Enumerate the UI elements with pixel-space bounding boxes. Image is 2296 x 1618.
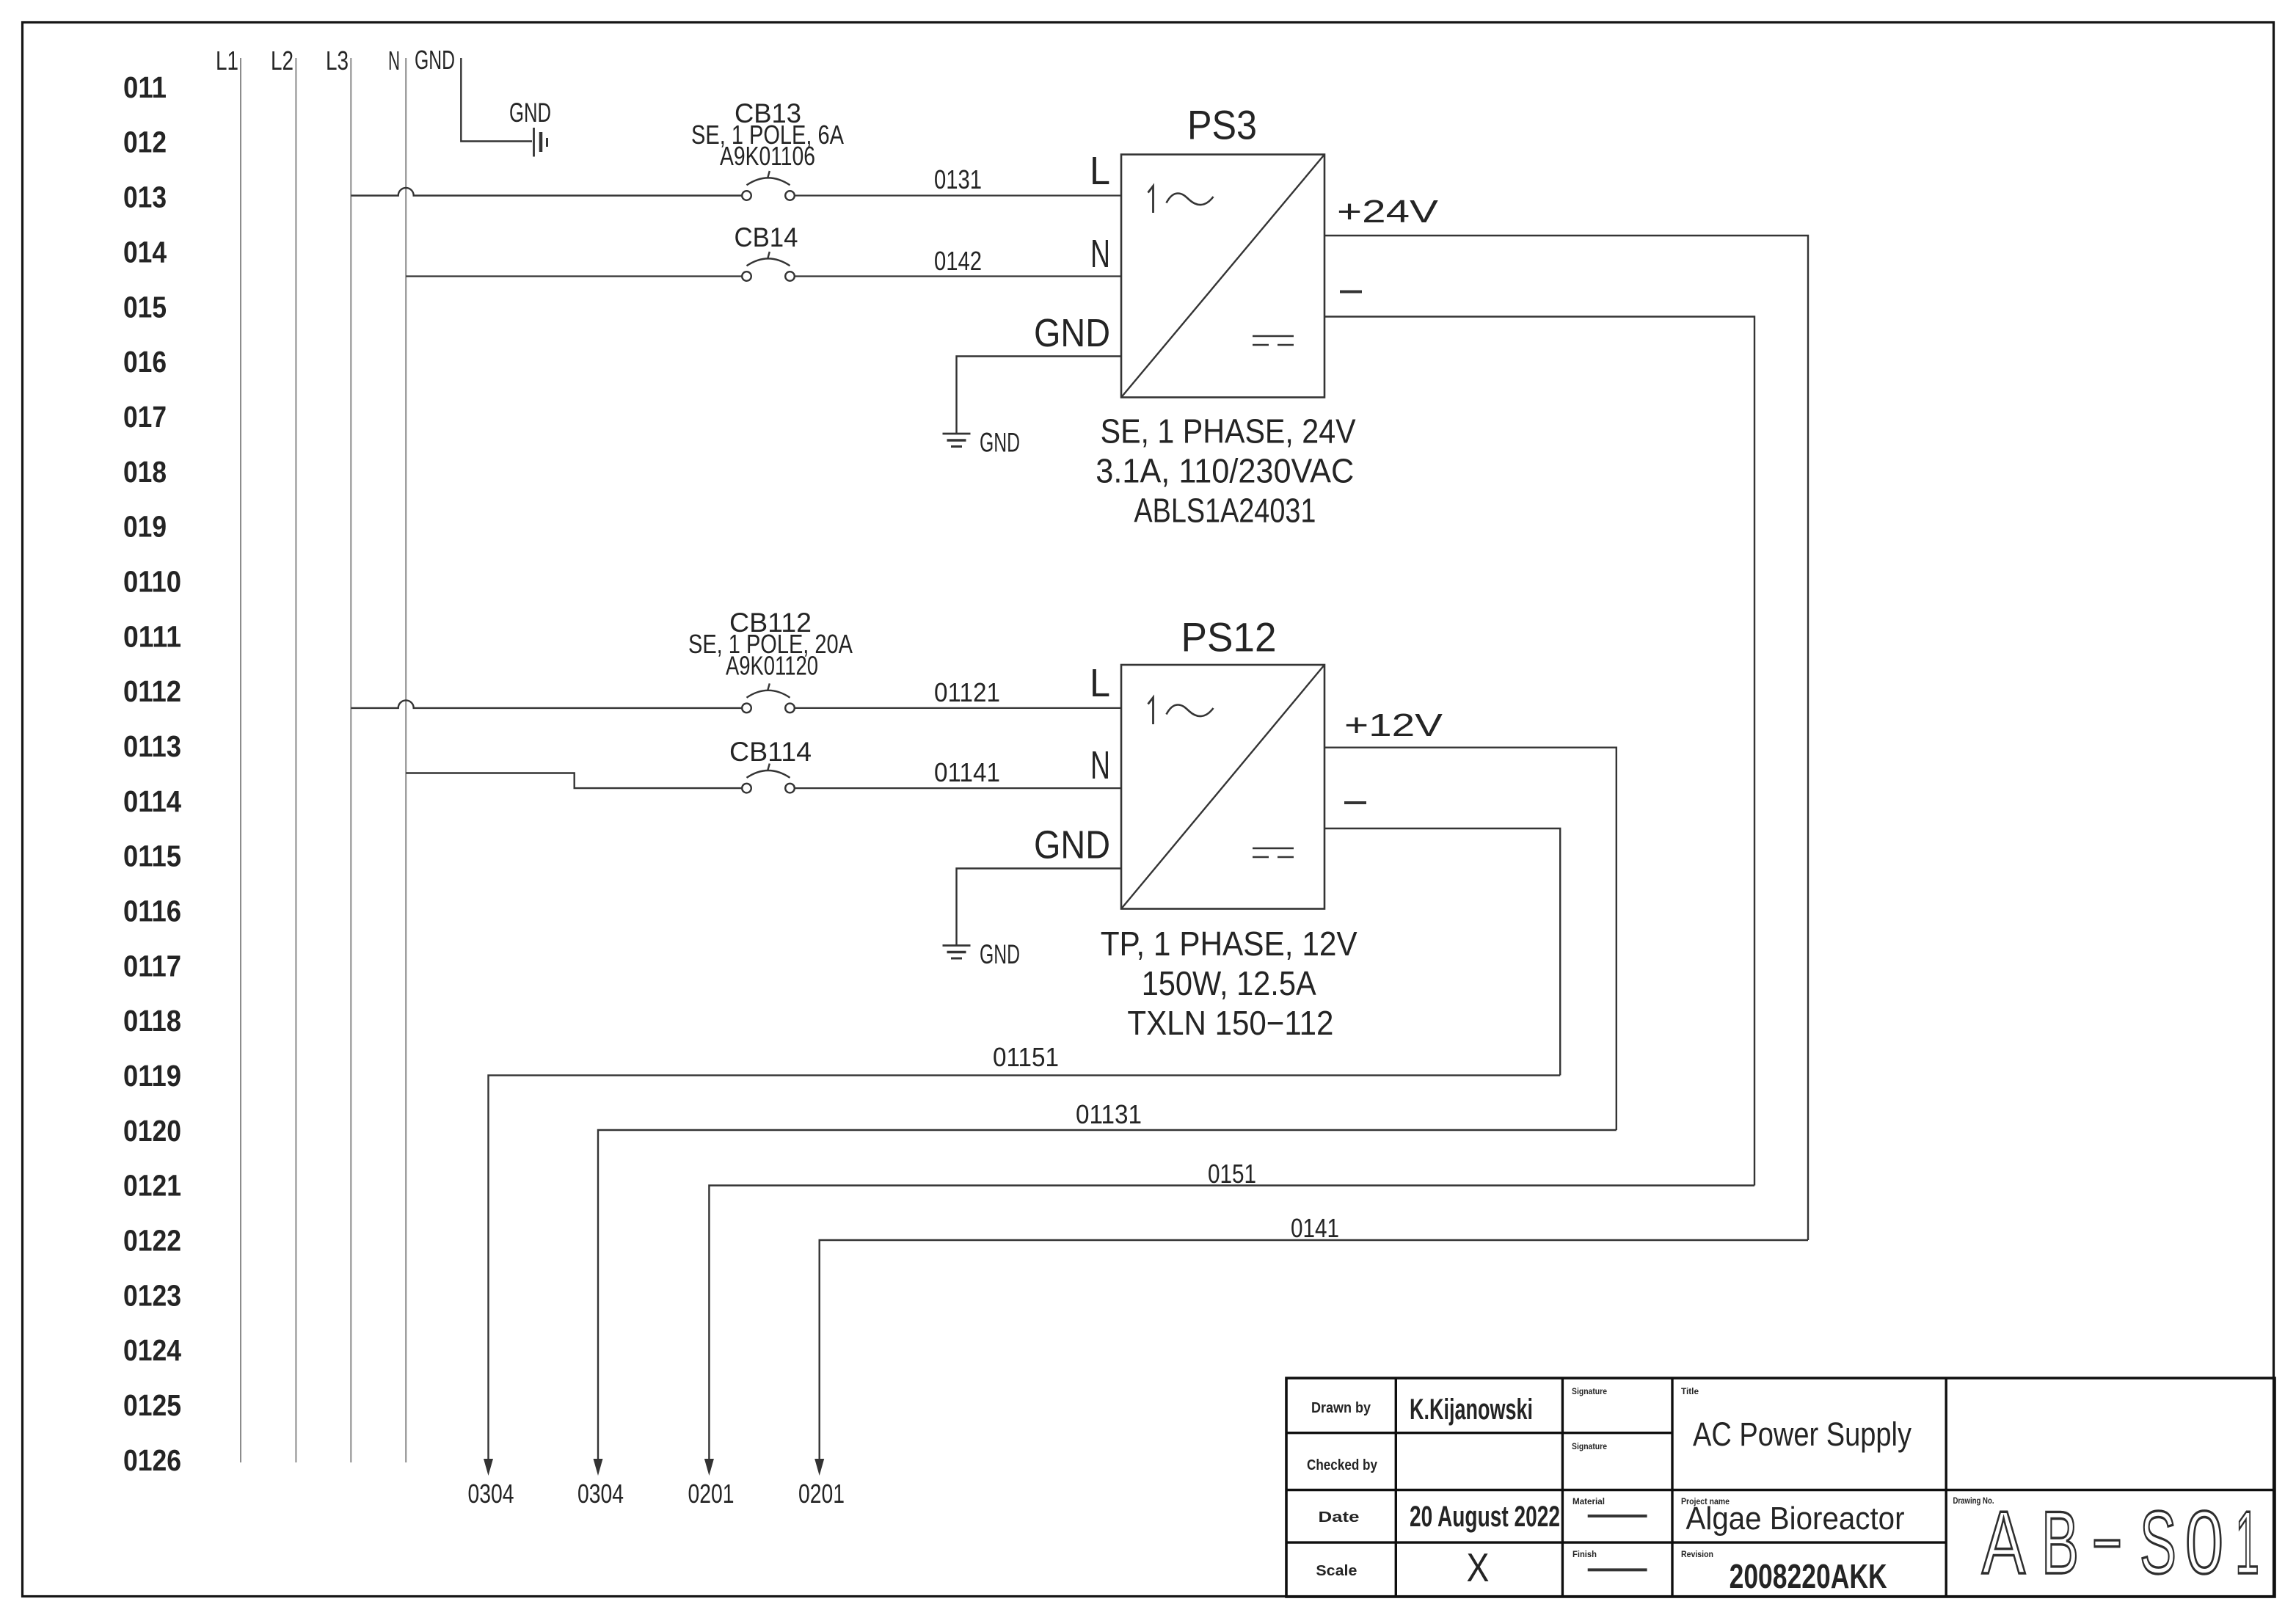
PS12 pin label GND [1034, 823, 1110, 867]
svg-text:Finish: Finish [1572, 1550, 1597, 1559]
finish dash [1588, 1568, 1647, 1571]
wire 01151 horizontal run and drop to sheet arrow [489, 1075, 1561, 1459]
svg-text:20 August 2022: 20 August 2022 [1410, 1501, 1560, 1533]
PS12 reference label [1181, 614, 1277, 660]
svg-text:2008220AKK: 2008220AKK [1730, 1557, 1887, 1595]
CB114 reference label [729, 737, 812, 767]
svg-text:018: 018 [123, 455, 167, 489]
circuit breaker CB114 [742, 764, 795, 793]
+12V label [1344, 707, 1443, 743]
svg-text:015: 015 [123, 290, 167, 324]
svg-text:N: N [388, 45, 400, 76]
svg-text:L1: L1 [216, 45, 238, 76]
off-sheet arrow 0304 (second) [594, 1459, 603, 1476]
svg-text:+24V: +24V [1337, 194, 1439, 230]
L3 bus line [350, 58, 351, 1462]
svg-text:016: 016 [123, 345, 167, 379]
wire 0142 segment: N tap to CB14 [406, 275, 742, 277]
svg-text:0131: 0131 [934, 164, 982, 194]
L2 bus label [271, 45, 294, 76]
wire 0151 horizontal run and drop to sheet arrow [709, 1186, 1754, 1460]
svg-text:Drawn by: Drawn by [1311, 1400, 1371, 1416]
PS3 reference label [1187, 102, 1257, 148]
svg-text:0304: 0304 [577, 1479, 624, 1509]
net label 01131 [1076, 1099, 1142, 1129]
svg-text:0201: 0201 [688, 1479, 735, 1509]
revision value 2008220AKK [1730, 1557, 1887, 1595]
svg-text:Title: Title [1681, 1388, 1699, 1396]
CB112 reference label [729, 608, 812, 638]
svg-text:ABLS1A24031: ABLS1A24031 [1134, 492, 1316, 530]
project name Algae Bioreactor [1686, 1501, 1905, 1537]
wire 0131 segment: L3 tap with hop over N to CB13 [351, 188, 742, 196]
svg-text:01141: 01141 [934, 757, 1000, 787]
svg-text:0113: 0113 [123, 729, 181, 763]
earth ground symbol under PS12 [943, 946, 971, 959]
PS12 DC symbol [1253, 848, 1294, 857]
destination label 0201 (left) [688, 1479, 735, 1509]
svg-text:+12V: +12V [1344, 707, 1443, 743]
PS3 description line 2 [1096, 452, 1354, 490]
wire 01121 segment: L3 tap with hop over N to CB112 [351, 700, 742, 708]
scale value X [1467, 1545, 1490, 1590]
svg-text:1: 1 [2235, 1493, 2259, 1592]
PS3 minus output wire [1324, 317, 1754, 1186]
wire row index labels 011-0126 [123, 70, 181, 1477]
title block vertical dividers [1396, 1378, 1946, 1597]
svg-text:Revision: Revision [1681, 1550, 1713, 1559]
PS3 pin label GND [1034, 311, 1110, 355]
CB112 description SE, 1 POLE, 20A [688, 629, 853, 659]
PS3 AC symbol 1~ [1148, 186, 1214, 214]
PS12 minus output wire [1324, 828, 1560, 1075]
svg-text:L: L [1090, 149, 1110, 193]
L3 bus label [326, 45, 349, 76]
L1 bus label [216, 45, 238, 76]
svg-text:TXLN 150−112: TXLN 150−112 [1127, 1004, 1333, 1042]
PS12 +12V output wire [1324, 748, 1617, 1130]
PS3 GND pin wire to earth symbol [957, 357, 1122, 434]
PS12 pin label L [1090, 661, 1110, 705]
svg-text:01131: 01131 [1076, 1099, 1142, 1129]
svg-text:0: 0 [2185, 1493, 2223, 1592]
svg-text:0201: 0201 [798, 1479, 845, 1509]
svg-text:S: S [2140, 1493, 2176, 1592]
svg-text:0123: 0123 [123, 1278, 181, 1312]
wire 01141 segment: CB114 to PS12 N pin [795, 787, 1121, 789]
PS3 +24V output wire [1324, 236, 1808, 1240]
off-sheet arrow 0201 (left) [704, 1459, 714, 1476]
svg-text:A: A [1982, 1493, 2025, 1592]
svg-text:0120: 0120 [123, 1114, 181, 1148]
signature field label (top) [1572, 1388, 1607, 1396]
GND bus label [415, 45, 455, 75]
date value 20 August 2022 [1410, 1501, 1560, 1533]
svg-text:0142: 0142 [934, 246, 982, 276]
svg-text:GND: GND [1034, 823, 1110, 867]
PS12 AC symbol 1~ [1148, 698, 1214, 725]
field label Date [1319, 1509, 1360, 1526]
net label 0141 [1291, 1213, 1339, 1243]
svg-text:0125: 0125 [123, 1388, 181, 1422]
CB13 reference label [735, 98, 801, 128]
svg-text:0114: 0114 [123, 784, 181, 818]
svg-text:Algae Bioreactor: Algae Bioreactor [1686, 1501, 1905, 1537]
svg-text:N: N [1090, 232, 1110, 276]
svg-text:Date: Date [1319, 1509, 1360, 1526]
destination label 0201 (second) [798, 1479, 845, 1509]
sheet title AC Power Supply [1693, 1415, 1911, 1453]
svg-text:0304: 0304 [468, 1479, 514, 1509]
svg-text:GND: GND [415, 45, 455, 75]
PS12 pin label N [1090, 743, 1110, 787]
svg-text:L2: L2 [271, 45, 294, 76]
drawn by value K.Kijanowski [1410, 1393, 1533, 1426]
svg-text:011: 011 [123, 70, 167, 104]
svg-text:AC Power Supply: AC Power Supply [1693, 1415, 1911, 1453]
svg-text:A9K01106: A9K01106 [720, 141, 815, 171]
earth ground symbol under PS3 [943, 434, 971, 447]
net label 0142 [934, 246, 982, 276]
finish field label [1572, 1550, 1597, 1559]
PS12 GND pin wire to earth symbol [957, 869, 1122, 946]
wire 0141 horizontal run and drop to sheet arrow [820, 1240, 1808, 1459]
destination label 0304 (left) [468, 1479, 514, 1509]
power supply PS12 box [1121, 665, 1324, 909]
svg-text:0118: 0118 [123, 1004, 181, 1038]
wire 01121 segment: CB112 to PS12 L pin [795, 707, 1121, 709]
N bus line [405, 58, 407, 1462]
svg-text:SE, 1 PHASE, 24V: SE, 1 PHASE, 24V [1101, 412, 1356, 451]
PS3 DC symbol [1253, 336, 1294, 345]
svg-text:0110: 0110 [123, 565, 181, 599]
earth ground symbol (rotated) at GND bus [534, 128, 547, 157]
PS3 pin label N [1090, 232, 1110, 276]
svg-text:TP, 1 PHASE, 12V: TP, 1 PHASE, 12V [1101, 925, 1357, 963]
svg-text:3.1A, 110/230VAC: 3.1A, 110/230VAC [1096, 452, 1354, 490]
svg-text:Scale: Scale [1316, 1563, 1357, 1579]
net label 01141 [934, 757, 1000, 787]
svg-text:0119: 0119 [123, 1059, 181, 1093]
svg-text:019: 019 [123, 510, 167, 544]
svg-text:Material: Material [1572, 1498, 1605, 1506]
svg-text:01151: 01151 [993, 1042, 1059, 1072]
PS12 description line 2 [1142, 964, 1316, 1002]
off-sheet arrow 0304 (left) [484, 1459, 493, 1476]
PS3 minus label [1340, 291, 1362, 294]
svg-text:GND: GND [509, 98, 551, 128]
wire 0142 segment: CB14 to PS3 N pin [795, 275, 1121, 277]
wire 01141 segment: N tap with jog to CB114 [406, 773, 742, 789]
svg-text:CB14: CB14 [735, 222, 798, 252]
svg-text:0117: 0117 [123, 949, 181, 983]
svg-text:150W, 12.5A: 150W, 12.5A [1142, 964, 1316, 1002]
svg-text:PS12: PS12 [1181, 614, 1277, 660]
net label 0131 [934, 164, 982, 194]
svg-text:Checked by: Checked by [1307, 1457, 1378, 1473]
svg-text:B: B [2041, 1493, 2079, 1592]
svg-text:−: − [2092, 1493, 2122, 1592]
svg-text:012: 012 [123, 125, 167, 159]
svg-text:0124: 0124 [123, 1333, 181, 1367]
svg-text:013: 013 [123, 181, 167, 214]
svg-text:CB114: CB114 [729, 737, 812, 767]
title field label [1681, 1388, 1699, 1396]
PS12 minus label [1344, 801, 1366, 804]
material dash [1588, 1515, 1647, 1517]
svg-text:GND: GND [980, 939, 1020, 969]
field label Checked by [1307, 1457, 1378, 1473]
net label 01151 [993, 1042, 1059, 1072]
title block horizontal dividers [1286, 1433, 2275, 1542]
CB14 reference label [735, 222, 798, 252]
wire 01131 horizontal run and drop to sheet arrow [598, 1130, 1617, 1459]
drawing number AB-S01 [1982, 1493, 2259, 1592]
power supply PS3 box [1121, 155, 1324, 398]
svg-text:K.Kijanowski: K.Kijanowski [1410, 1393, 1533, 1426]
destination label 0304 (second) [577, 1479, 624, 1509]
svg-text:0121: 0121 [123, 1169, 181, 1203]
L2 bus line [295, 58, 296, 1462]
+24V label [1337, 194, 1439, 230]
CB112 part number A9K01120 [726, 651, 818, 681]
svg-text:0151: 0151 [1208, 1159, 1256, 1189]
CB13 description SE, 1 POLE, 6A [691, 120, 844, 150]
off-sheet arrow 0201 (second) [814, 1459, 824, 1476]
svg-text:GND: GND [980, 428, 1020, 458]
L1 bus line [240, 58, 241, 1462]
PS12 description line 1 [1101, 925, 1357, 963]
svg-text:A9K01120: A9K01120 [726, 651, 818, 681]
GND bus wire to earth symbol [461, 58, 532, 142]
PS3 part number ABLS1A24031 [1134, 492, 1316, 530]
svg-text:N: N [1090, 743, 1110, 787]
svg-text:Signature: Signature [1572, 1443, 1607, 1451]
PS3 pin label L [1090, 149, 1110, 193]
wire 0131 segment: CB13 to PS3 L pin [795, 194, 1121, 196]
PS3 description line 1 [1101, 412, 1356, 451]
svg-text:0141: 0141 [1291, 1213, 1339, 1243]
project name field label [1681, 1498, 1730, 1506]
svg-text:0126: 0126 [123, 1443, 181, 1477]
circuit breaker CB13 [742, 171, 795, 200]
drawing number field label [1953, 1497, 1994, 1506]
field label Scale [1316, 1563, 1357, 1579]
CB13 part number A9K01106 [720, 141, 815, 171]
svg-text:0115: 0115 [123, 839, 181, 873]
GND label at PS12 earth symbol [980, 939, 1020, 969]
svg-text:L3: L3 [326, 45, 349, 76]
svg-text:017: 017 [123, 400, 167, 434]
GND label at PS3 earth symbol [980, 428, 1020, 458]
circuit breaker CB14 [742, 252, 795, 281]
svg-text:014: 014 [123, 235, 167, 269]
material field label [1572, 1498, 1605, 1506]
circuit breaker CB112 [742, 683, 795, 713]
svg-text:GND: GND [1034, 311, 1110, 355]
revision field label [1681, 1550, 1713, 1559]
svg-text:0122: 0122 [123, 1224, 181, 1258]
PS12 part number TXLN 150-112 [1127, 1004, 1333, 1042]
GND label at top earth symbol [509, 98, 551, 128]
svg-text:0111: 0111 [123, 619, 181, 653]
svg-text:0116: 0116 [123, 894, 181, 928]
svg-text:X: X [1467, 1545, 1490, 1590]
svg-text:L: L [1090, 661, 1110, 705]
svg-text:Signature: Signature [1572, 1388, 1607, 1396]
field label Drawn by [1311, 1400, 1371, 1416]
signature field label (second) [1572, 1443, 1607, 1451]
svg-text:01121: 01121 [934, 677, 1000, 707]
net label 01121 [934, 677, 1000, 707]
svg-text:0112: 0112 [123, 674, 181, 708]
title block outer frame [1286, 1378, 2275, 1597]
svg-text:PS3: PS3 [1187, 102, 1257, 148]
N bus label [388, 45, 400, 76]
net label 0151 [1208, 1159, 1256, 1189]
